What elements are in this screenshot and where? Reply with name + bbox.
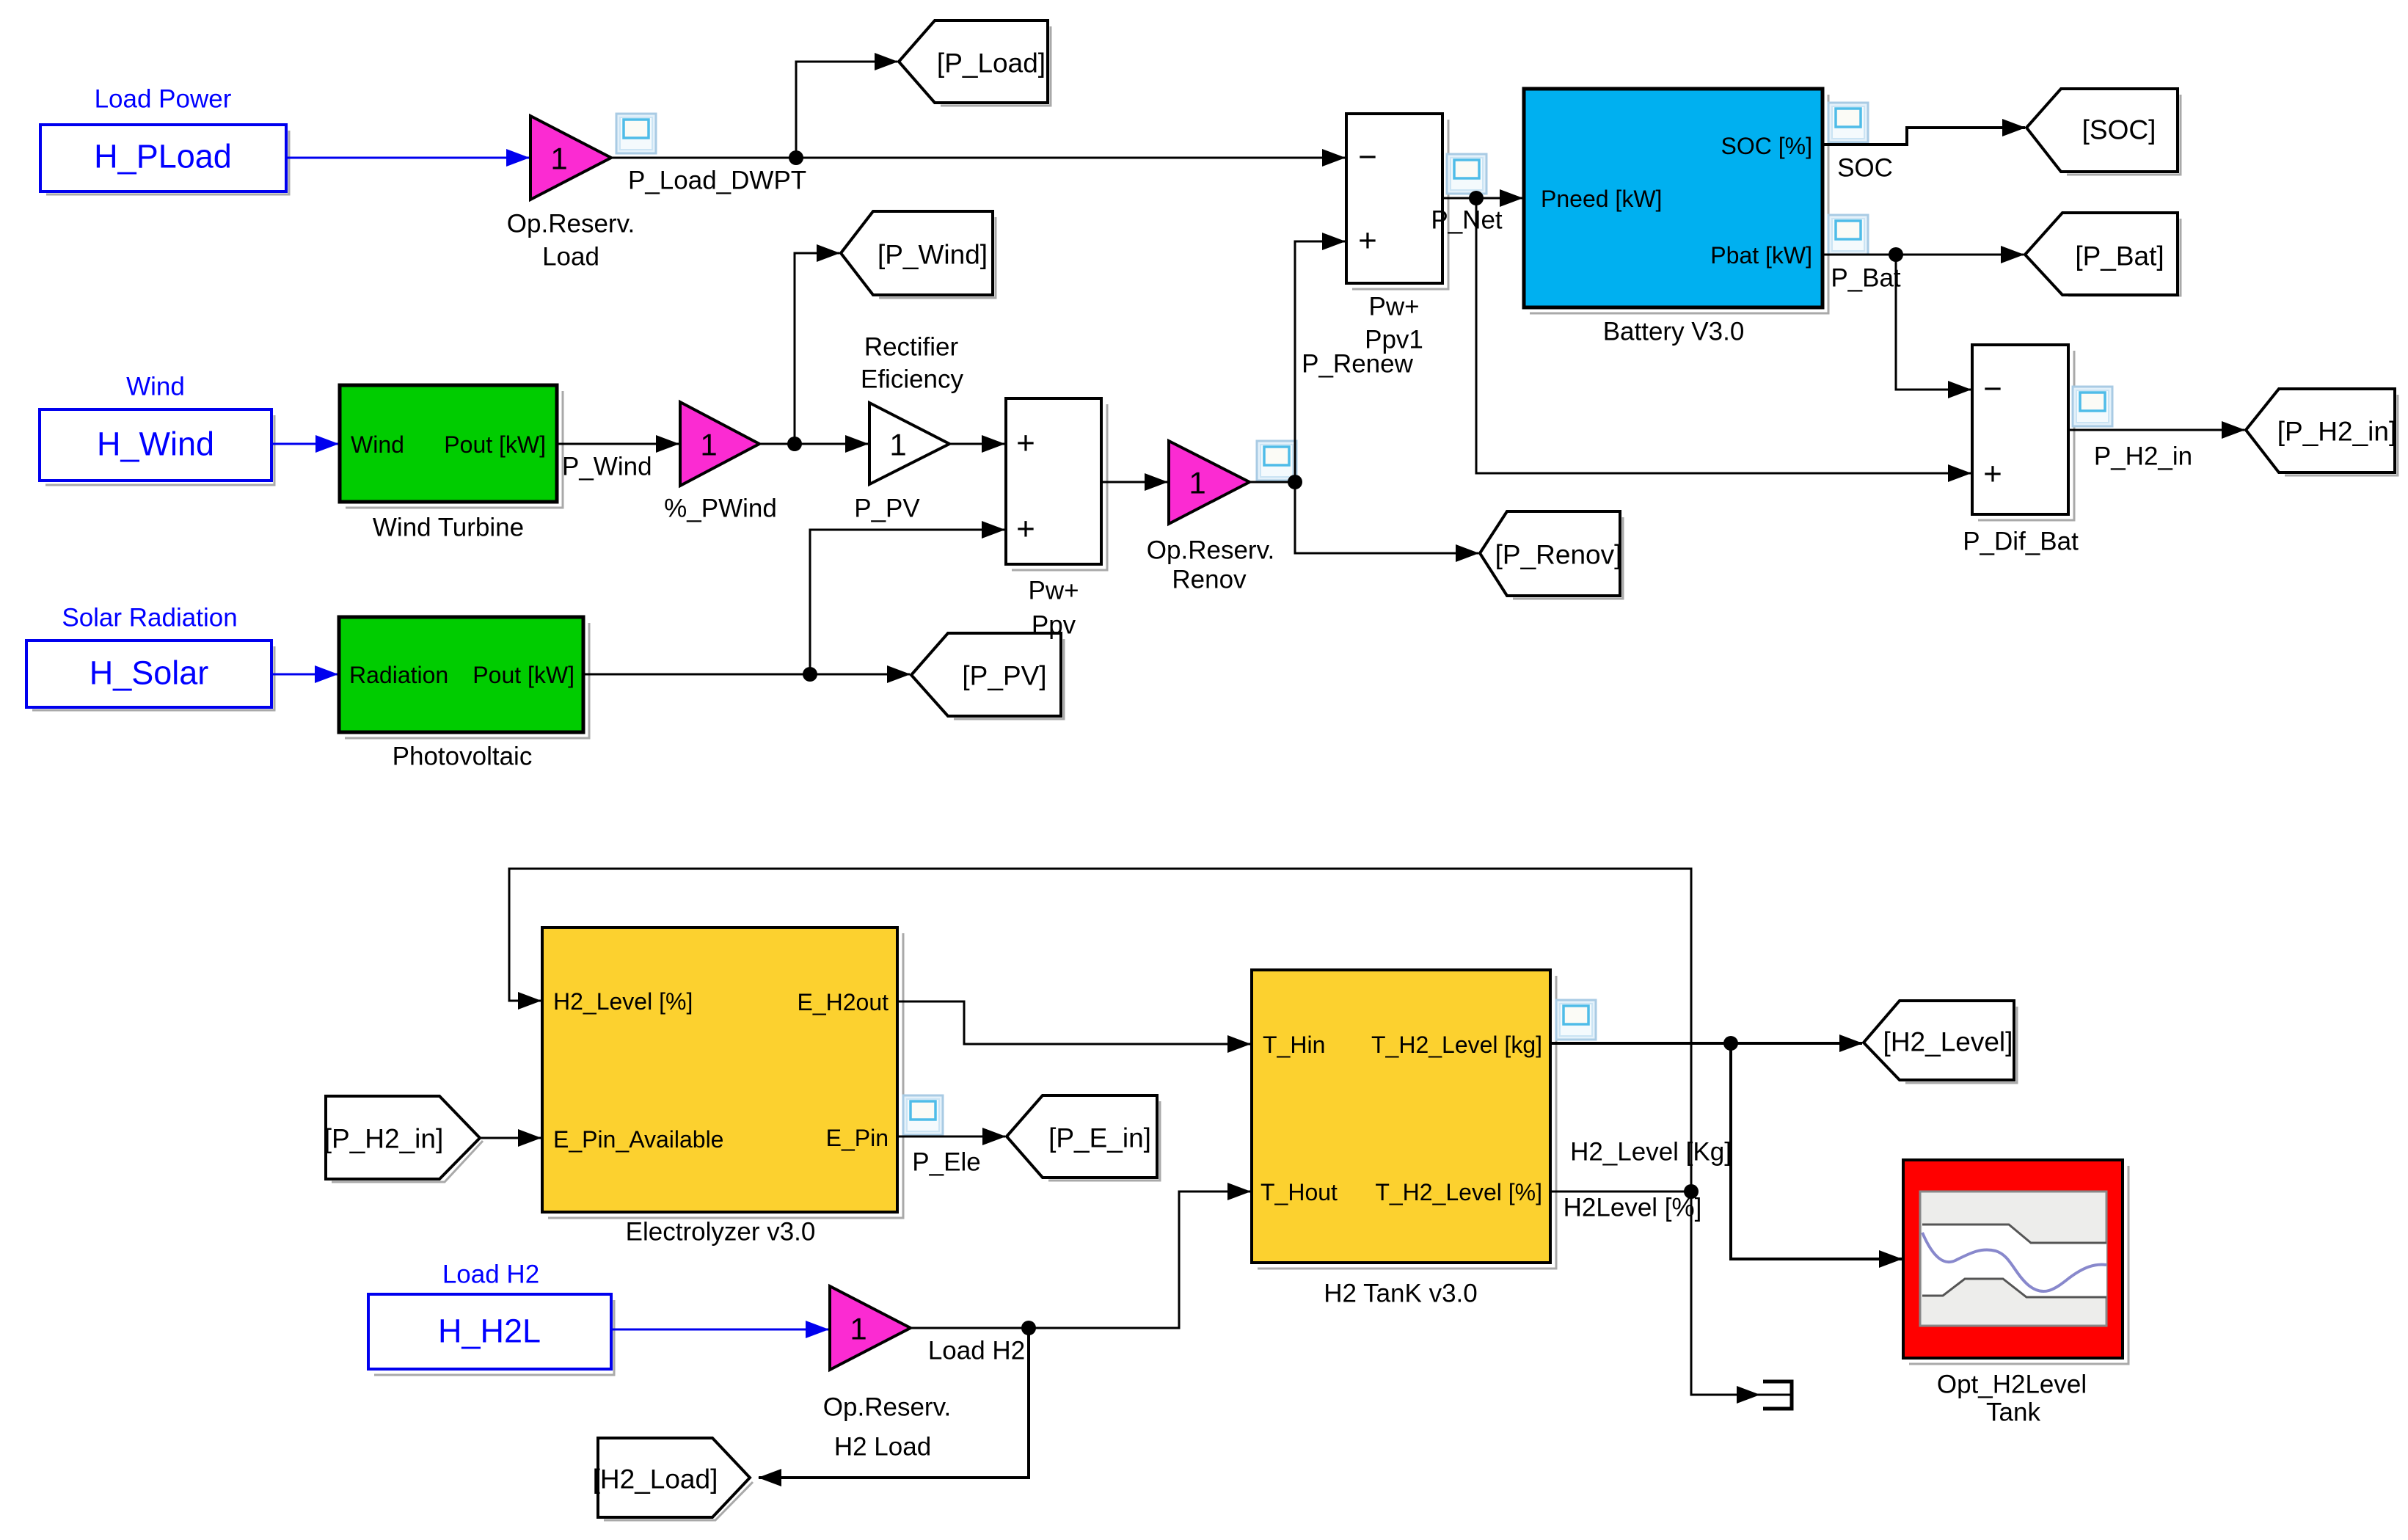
gain Op.Reserv. Renov [1147, 441, 1274, 594]
scope icon P_Renew [1257, 441, 1296, 481]
svg-text:1: 1 [850, 1312, 866, 1346]
svg-text:Eficiency: Eficiency [861, 365, 964, 394]
wire Pbat to [P_Bat] goto, label P_Bat [1823, 247, 2024, 293]
svg-text:Wind: Wind [126, 373, 185, 401]
svg-text:T_H2_Level [kg]: T_H2_Level [kg] [1371, 1032, 1542, 1058]
wire P_Bat down to P_Dif_Bat minus [1896, 255, 1971, 390]
wire sum2 to gain Op.Reserv.Renov [1101, 481, 1167, 483]
svg-text:Solar Radiation: Solar Radiation [62, 604, 237, 632]
wire branch up to sum2 plus2 [810, 530, 1004, 674]
goto tag [P_Load] [899, 21, 1051, 106]
svg-text:H2Level [%]: H2Level [%] [1564, 1194, 1702, 1222]
svg-text:P_Bat: P_Bat [1831, 264, 1901, 293]
goto tag [P_H2_in] [2246, 389, 2398, 475]
inport H_Wind [40, 409, 274, 485]
inport H_H2L [368, 1294, 614, 1375]
wire gain to junction [1249, 475, 1302, 489]
wire T_H2_Level[%] with labels [1550, 1138, 1732, 1222]
wire H_Solar to Photovoltaic [271, 674, 338, 676]
svg-text:[H2_Load]: [H2_Load] [593, 1464, 718, 1495]
svg-text:P_Wind: P_Wind [562, 453, 652, 481]
svg-text:E_Pin_Available: E_Pin_Available [553, 1126, 723, 1153]
svg-text:Op.Reserv.: Op.Reserv. [1147, 536, 1274, 565]
wire gain to Rectifier gain [759, 437, 868, 451]
svg-text:Pneed [kW]: Pneed [kW] [1541, 186, 1662, 212]
wire sum1 to Battery, label P_Net [1431, 191, 1522, 235]
wire P_Net down to P_Dif_Bat plus [1476, 198, 1971, 473]
svg-text:Battery V3.0: Battery V3.0 [1603, 318, 1745, 346]
block Wind Turbine [340, 385, 563, 542]
svg-text:1: 1 [550, 142, 567, 176]
goto tag [P_PV] [911, 633, 1064, 719]
wire down to terminator [1691, 1192, 1759, 1395]
svg-text:H2_Level [Kg]: H2_Level [Kg] [1570, 1138, 1732, 1167]
svg-text:Load: Load [542, 243, 599, 271]
scope icon T_H2_Level [1556, 1000, 1596, 1040]
wire P_Dif_Bat to [P_H2_in] goto, label P_H2_in [2068, 430, 2244, 471]
goto tag [H2_Level] [1864, 1001, 2017, 1083]
sum block Pw+Ppv [1006, 398, 1107, 640]
block Electrolyzer v3.0 [542, 927, 903, 1247]
svg-text:H2 TanK v3.0: H2 TanK v3.0 [1324, 1280, 1478, 1308]
block Battery V3.0 [1524, 89, 1828, 346]
svg-text:1: 1 [700, 428, 717, 462]
svg-text:T_Hout: T_Hout [1260, 1179, 1338, 1205]
svg-text:P_Net: P_Net [1431, 206, 1503, 235]
goto tag [P_E_in] [1007, 1095, 1160, 1180]
svg-text:H2 Load: H2 Load [834, 1433, 931, 1461]
svg-text:[H2_Level]: [H2_Level] [1883, 1027, 2013, 1057]
svg-text:1: 1 [1189, 466, 1205, 500]
svg-text:P_PV: P_PV [854, 495, 920, 523]
scope icon P_Ele [903, 1095, 943, 1135]
svg-text:Wind: Wind [351, 431, 404, 458]
svg-text:H_Wind: H_Wind [97, 426, 214, 463]
wire from tag to Electrolyzer [480, 1137, 541, 1139]
wire E_H2out to T_Hin [897, 1001, 1250, 1044]
svg-text:−: − [1983, 371, 2002, 407]
svg-text:Opt_H2Level: Opt_H2Level [1937, 1371, 2087, 1399]
scope icon P_Load_DWPT [616, 114, 656, 153]
wire gain to sum1 minus, label P_Load_DWPT [611, 150, 1345, 195]
svg-text:Ppv: Ppv [1032, 611, 1076, 640]
svg-text:Pout [kW]: Pout [kW] [473, 662, 574, 688]
wire up to sum1 plus, label P_Renew [1295, 241, 1414, 482]
svg-text:Pw+: Pw+ [1368, 293, 1419, 321]
svg-text:P_H2_in: P_H2_in [2094, 442, 2192, 471]
svg-text:H_Solar: H_Solar [90, 654, 209, 692]
svg-text:Rectifier: Rectifier [864, 333, 959, 362]
svg-text:+: + [1016, 511, 1035, 547]
scope icon P_Bat [1828, 215, 1868, 255]
gain Op.Reserv. Load [507, 116, 635, 271]
svg-text:T_Hin: T_Hin [1263, 1032, 1325, 1058]
block H2 TanK v3.0 [1252, 970, 1556, 1308]
svg-text:E_Pin: E_Pin [826, 1125, 889, 1151]
svg-text:SOC [%]: SOC [%] [1721, 133, 1812, 159]
svg-text:Wind Turbine: Wind Turbine [373, 514, 524, 542]
wire feedback H2 level to Electrolyzer [509, 869, 1691, 1192]
svg-text:Op.Reserv.: Op.Reserv. [507, 210, 635, 238]
svg-text:[P_H2_in]: [P_H2_in] [324, 1124, 444, 1154]
wire Wind Turbine to gain %_PWind, label P_Wind [557, 444, 679, 481]
wire SOC to [SOC] goto, label SOC [1823, 128, 2025, 183]
scope block Opt_H2Level Tank [1903, 1160, 2128, 1427]
gain %_PWind [664, 402, 777, 523]
svg-text:+: + [1016, 426, 1035, 461]
wire E_Pin to [P_E_in] goto, label P_Ele [897, 1136, 1005, 1177]
gain Rectifier Eficiency [854, 333, 963, 523]
svg-text:Pw+: Pw+ [1028, 577, 1079, 605]
svg-text:H_H2L: H_H2L [438, 1313, 541, 1350]
svg-text:[SOC]: [SOC] [2082, 115, 2156, 145]
goto tag [P_Wind] [841, 211, 996, 298]
svg-text:%_PWind: %_PWind [664, 495, 777, 523]
wire Photovoltaic to P_PV goto [583, 667, 910, 682]
svg-text:[P_PV]: [P_PV] [962, 661, 1046, 691]
goto tag [H2_Load] (right-pointing) [593, 1438, 753, 1520]
svg-text:Radiation: Radiation [349, 662, 448, 688]
scope icon P_H2_in [2073, 387, 2112, 426]
svg-text:Load H2: Load H2 [928, 1337, 1025, 1365]
svg-text:Op.Reserv.: Op.Reserv. [823, 1393, 951, 1422]
svg-text:Tank: Tank [1986, 1398, 2040, 1427]
svg-text:T_H2_Level [%]: T_H2_Level [%] [1375, 1179, 1542, 1205]
goto tag [P_Bat] [2025, 213, 2181, 296]
svg-text:+: + [1358, 223, 1377, 259]
wire branch down to red scope [1731, 1043, 1902, 1259]
wire H_Wind to Wind Turbine [271, 443, 338, 445]
svg-text:[P_Load]: [P_Load] [937, 48, 1046, 79]
sum block Pw+Ppv1 [1346, 114, 1448, 354]
goto tag [SOC] [2026, 89, 2181, 175]
svg-text:[P_Wind]: [P_Wind] [878, 240, 988, 270]
svg-text:E_H2out: E_H2out [797, 989, 889, 1015]
svg-text:1: 1 [889, 428, 906, 462]
svg-text:P_Dif_Bat: P_Dif_Bat [1963, 528, 2079, 556]
scope icon SOC [1828, 103, 1868, 142]
wire H_PLoad to gain [286, 157, 529, 159]
wire T_H2_Level[kg] to [H2_Level] goto [1550, 1036, 1862, 1051]
svg-text:Load H2: Load H2 [442, 1260, 539, 1289]
wire H_H2L to gain [611, 1329, 828, 1331]
svg-text:Pbat [kW]: Pbat [kW] [1710, 242, 1812, 269]
block Photovoltaic [339, 617, 589, 771]
inport H_PLoad [40, 125, 289, 194]
wire gain to T_Hout, label Load H2 [911, 1192, 1250, 1365]
wire down to P_Renov goto [1295, 482, 1478, 553]
svg-text:Pout [kW]: Pout [kW] [444, 431, 546, 458]
terminator ground symbol [1759, 1382, 1792, 1409]
svg-text:[P_Bat]: [P_Bat] [2075, 241, 2164, 271]
svg-text:P_Load_DWPT: P_Load_DWPT [628, 167, 806, 195]
svg-text:[P_E_in]: [P_E_in] [1048, 1123, 1151, 1153]
inport H_Solar [26, 641, 274, 710]
svg-text:Electrolyzer v3.0: Electrolyzer v3.0 [626, 1218, 816, 1247]
svg-text:[P_Renov]: [P_Renov] [1495, 540, 1622, 570]
svg-text:H2_Level [%]: H2_Level [%] [553, 988, 693, 1015]
svg-text:[P_H2_in]: [P_H2_in] [2277, 417, 2397, 447]
wire branch up to P_Load goto [796, 62, 897, 158]
wire branch down to [H2_Load] goto [759, 1328, 1029, 1478]
scope icon P_Net [1447, 154, 1486, 194]
goto tag [P_Renov] [1480, 511, 1623, 599]
svg-text:+: + [1983, 456, 2002, 492]
gain Op.Reserv. H2 Load [823, 1286, 951, 1461]
wire Rectifier to sum2 [949, 443, 1004, 445]
svg-text:Renov: Renov [1172, 566, 1247, 594]
wire branch up to P_Wind goto [795, 253, 839, 444]
svg-text:−: − [1358, 139, 1377, 175]
svg-text:H_PLoad: H_PLoad [94, 138, 232, 175]
svg-text:SOC: SOC [1837, 154, 1893, 183]
svg-text:Photovoltaic: Photovoltaic [393, 742, 533, 771]
sum block P_Dif_Bat [1963, 345, 2079, 556]
from tag [P_H2_in] [324, 1096, 483, 1182]
svg-text:P_Ele: P_Ele [912, 1148, 980, 1177]
svg-text:Load Power: Load Power [95, 85, 232, 114]
svg-text:Ppv1: Ppv1 [1365, 326, 1423, 354]
